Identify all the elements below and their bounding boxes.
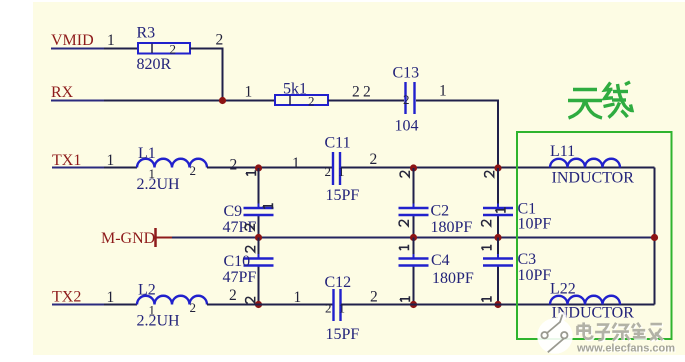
svg-text:1: 1	[439, 83, 447, 100]
junction C2/M-GND	[410, 234, 417, 241]
value 15PF	[326, 326, 360, 343]
capacitor C10	[244, 254, 274, 270]
svg-text:INDUCTOR: INDUCTOR	[552, 170, 635, 187]
wire L1 to C11	[207, 167, 332, 169]
pin 1 before C11	[292, 155, 300, 172]
rotated pin 1	[246, 170, 255, 176]
label R3	[137, 25, 156, 42]
pin 1 of L1	[149, 166, 156, 181]
wire TX1 stub	[52, 167, 104, 169]
svg-text:www.elecfans.com: www.elecfans.com	[576, 342, 675, 354]
label C4	[431, 252, 450, 269]
pin 1 of R3	[107, 32, 115, 49]
wire VMID stub	[51, 48, 104, 50]
rotated pin 2	[245, 224, 254, 230]
capacitor C13	[403, 82, 415, 114]
pin 2 labels	[352, 84, 371, 101]
wire L2 to C12	[207, 304, 333, 306]
pin 2 after L2	[229, 287, 237, 304]
svg-text:2.2UH: 2.2UH	[137, 313, 181, 330]
capacitor C1	[483, 204, 513, 220]
svg-text:1: 1	[245, 84, 253, 101]
pin 1 of resistor 5k1	[245, 84, 253, 101]
value 10PF	[518, 267, 552, 284]
junction TX1/C1	[494, 164, 501, 171]
rotated pin 2 of C10	[246, 246, 255, 252]
wire R3 to corner	[190, 49, 223, 101]
junction C10/TX2	[255, 301, 262, 308]
rotated pin 1	[400, 296, 409, 302]
net label TX1	[52, 152, 81, 169]
net label RX	[51, 84, 74, 101]
pin 1 before C12	[294, 289, 302, 306]
svg-text:1: 1	[338, 164, 345, 179]
net label TX2	[52, 289, 81, 306]
wire C2 to M-GND	[413, 217, 415, 238]
label C2	[431, 203, 450, 220]
value INDUCTOR	[552, 305, 635, 322]
svg-text:C10: C10	[224, 253, 251, 270]
wire C11 to green box	[341, 167, 655, 169]
svg-text:10PF: 10PF	[518, 267, 552, 284]
pin 1 of TX1 row	[107, 152, 115, 169]
wire C9 branch upper	[258, 168, 260, 207]
svg-text:15PF: 15PF	[326, 187, 360, 204]
M-GND red wire segment	[156, 237, 173, 239]
junction M-GND/right	[651, 234, 658, 241]
wire C2 branch upper	[413, 168, 415, 207]
value 2.2UH	[137, 313, 181, 330]
svg-text:L22: L22	[550, 281, 576, 298]
wire C10 branch upper	[258, 238, 260, 258]
rotated pin 2	[399, 220, 408, 226]
svg-text:15PF: 15PF	[326, 326, 360, 343]
svg-text:TX1: TX1	[52, 152, 81, 169]
wire 5k1 to C13	[328, 100, 404, 102]
pin 2 of L1	[190, 163, 197, 178]
svg-text:L2: L2	[138, 282, 156, 299]
label C13	[393, 65, 420, 82]
value 15PF	[326, 187, 360, 204]
wire C1 to M-GND	[497, 217, 499, 238]
value 10PF	[518, 216, 552, 233]
pin 2 after C11	[370, 151, 378, 168]
junction C1/M-GND	[494, 234, 501, 241]
green antenna box	[517, 132, 672, 339]
wire RX stub	[51, 100, 104, 102]
svg-text:L11: L11	[550, 143, 575, 160]
svg-text:2: 2	[363, 84, 371, 101]
wire right vertical	[654, 168, 656, 305]
capacitor C2	[399, 204, 429, 220]
svg-text:2: 2	[190, 300, 197, 315]
svg-text:RX: RX	[51, 84, 74, 101]
pin 1 of C13	[439, 83, 447, 100]
value 180PF	[431, 219, 473, 236]
svg-text:2: 2	[352, 84, 360, 101]
label L2	[138, 282, 156, 299]
rotated pin 2	[246, 297, 255, 303]
capacitor C4	[399, 254, 429, 270]
rotated pin 1 of C3	[482, 245, 491, 251]
wire C4 to TX2	[413, 267, 415, 305]
svg-text:1: 1	[107, 32, 115, 49]
inductor L1	[137, 159, 207, 168]
svg-text:L1: L1	[138, 145, 156, 162]
junction TX1/C9	[255, 164, 262, 171]
svg-text:C2: C2	[431, 203, 450, 220]
watermark url text	[576, 342, 676, 355]
svg-text:2: 2	[325, 164, 332, 179]
wire TX2 to L2	[104, 304, 137, 306]
svg-text:10PF: 10PF	[518, 216, 552, 233]
wire C12 to green box	[341, 304, 655, 306]
svg-text:820R: 820R	[137, 56, 172, 73]
resistor 5k1	[275, 94, 328, 109]
rotated pin 2 of C1	[485, 171, 494, 177]
label C9	[224, 203, 243, 220]
junction R3/RX	[219, 97, 226, 104]
resistor R3	[138, 42, 190, 57]
wire C10 to TX2	[258, 267, 260, 305]
rotated pin 2	[482, 220, 491, 226]
svg-text:2: 2	[216, 32, 224, 49]
label C1	[518, 201, 537, 218]
wire TX1 to L1	[104, 167, 137, 169]
pin 1 of L2	[149, 303, 156, 318]
svg-text:2.2UH: 2.2UH	[137, 176, 181, 193]
label C12	[325, 274, 352, 291]
wire M-GND bus	[172, 237, 655, 239]
value 820R	[137, 56, 172, 73]
label C3	[518, 251, 537, 268]
svg-text:2: 2	[325, 301, 332, 316]
pin 2 after C12	[370, 289, 378, 306]
svg-text:104: 104	[395, 118, 419, 135]
M-GND tick	[154, 228, 157, 247]
svg-text:C11: C11	[325, 135, 351, 152]
svg-text:5k1: 5k1	[283, 81, 307, 98]
junction C3/TX2	[494, 301, 501, 308]
wire C4 branch upper	[413, 238, 415, 258]
rotated pin 1 of C4	[399, 245, 408, 251]
svg-text:VMID: VMID	[51, 32, 94, 49]
value 104	[395, 118, 419, 135]
label 天线 (antenna) drawn glyphs	[568, 82, 632, 118]
watermark logo circle	[537, 312, 573, 354]
junction C9/M-GND	[255, 234, 262, 241]
wire RX to 5k1	[104, 100, 275, 102]
inductor L2	[137, 296, 207, 305]
label C11	[325, 135, 351, 152]
label L22	[550, 281, 576, 298]
svg-text:2: 2	[370, 151, 378, 168]
inductor L11	[550, 159, 620, 168]
value 47PF	[223, 219, 257, 236]
svg-text:2: 2	[229, 287, 237, 304]
pin 2 of L2	[190, 300, 197, 315]
capacitor C3	[483, 254, 513, 270]
svg-text:1: 1	[107, 289, 115, 306]
svg-text:2: 2	[308, 94, 315, 109]
svg-text:2: 2	[370, 289, 378, 306]
svg-text:C12: C12	[325, 274, 352, 291]
wire C9 to M-GND	[258, 217, 260, 238]
value INDUCTOR	[552, 170, 635, 187]
pin 2 of R3	[216, 32, 224, 49]
value 2.2UH	[137, 176, 181, 193]
svg-text:TX2: TX2	[52, 289, 81, 306]
junction TX1/C2	[410, 164, 417, 171]
capacitor C12	[325, 289, 345, 321]
svg-text:180PF: 180PF	[431, 219, 473, 236]
net label M-GND	[101, 230, 155, 247]
svg-text:1: 1	[107, 152, 115, 169]
label L11	[550, 143, 575, 160]
svg-text:R3: R3	[137, 25, 156, 42]
wire C13 to corner	[416, 101, 498, 169]
capacitor C9	[244, 203, 274, 219]
svg-text:C4: C4	[431, 252, 450, 269]
wire VMID to R3	[104, 48, 138, 50]
wire C3 to TX2	[497, 267, 499, 305]
pin 2 after L1	[230, 157, 238, 174]
svg-text:2: 2	[403, 92, 410, 107]
svg-text:1: 1	[339, 301, 346, 316]
value 180PF	[432, 270, 474, 287]
svg-text:M-GND: M-GND	[101, 230, 155, 247]
capacitor C11	[325, 152, 345, 185]
svg-text:1: 1	[292, 155, 300, 172]
svg-text:180PF: 180PF	[432, 270, 474, 287]
wire C1 branch upper	[497, 168, 499, 207]
rotated pin 2 of C2	[400, 171, 409, 177]
label C10	[224, 253, 251, 270]
wire C3 branch upper	[497, 238, 499, 258]
svg-text:2: 2	[230, 157, 238, 174]
inductor L22	[550, 296, 620, 305]
wire TX2 stub	[52, 304, 104, 306]
net label VMID	[51, 32, 94, 49]
svg-text:C9: C9	[224, 203, 243, 220]
watermark 电子发烧友 approximate glyphs	[578, 322, 664, 341]
svg-text:C13: C13	[393, 65, 420, 82]
label 5k1	[283, 81, 307, 98]
rotated pin 1	[482, 296, 491, 302]
svg-text:2: 2	[190, 163, 197, 178]
junction C4/TX2	[410, 301, 417, 308]
pin 1 of TX2 row	[107, 289, 115, 306]
svg-text:47PF: 47PF	[223, 269, 257, 286]
svg-text:C3: C3	[518, 251, 537, 268]
svg-text:2: 2	[170, 42, 177, 57]
value 47PF	[223, 269, 257, 286]
label L1	[138, 145, 156, 162]
svg-text:1: 1	[294, 289, 302, 306]
